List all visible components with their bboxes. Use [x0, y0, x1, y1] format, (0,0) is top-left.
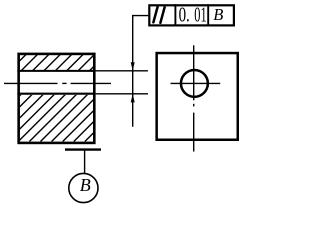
frame divider 2: [207, 4, 209, 26]
hatching, upper band section lines: [8, 49, 112, 73]
leader arrowhead (down): [131, 62, 135, 71]
svg-text:01: 01: [194, 3, 206, 27]
slot top edge (visible line): [17, 70, 95, 72]
svg-text:B: B: [213, 5, 223, 24]
parallelism symbol //: [153, 7, 164, 23]
datum leader stem: [84, 151, 86, 174]
left view outline (sectioned block): [19, 54, 95, 143]
svg-text:0.: 0.: [179, 3, 190, 27]
datum circle: [69, 173, 98, 202]
slot axis centre line (dash-dot): [4, 82, 111, 84]
extension line from slot bottom edge: [96, 93, 148, 95]
hole vertical centre line (dash-dot): [193, 45, 195, 151]
leader arrowhead (up): [131, 94, 135, 103]
hole circle: [181, 70, 208, 97]
datum feature line (thick short stroke): [65, 148, 101, 150]
leader line from tolerance frame: [133, 16, 149, 127]
slot bottom edge (visible line): [17, 93, 95, 95]
frame divider 1: [174, 4, 176, 26]
hole horizontal centre line: [171, 82, 221, 84]
hatching, lower band section lines: [0, 52, 175, 142]
right view outline (end view): [157, 53, 238, 140]
svg-text:B: B: [80, 175, 91, 195]
feature control frame border: [149, 5, 234, 25]
extension line from slot top edge: [96, 70, 148, 72]
